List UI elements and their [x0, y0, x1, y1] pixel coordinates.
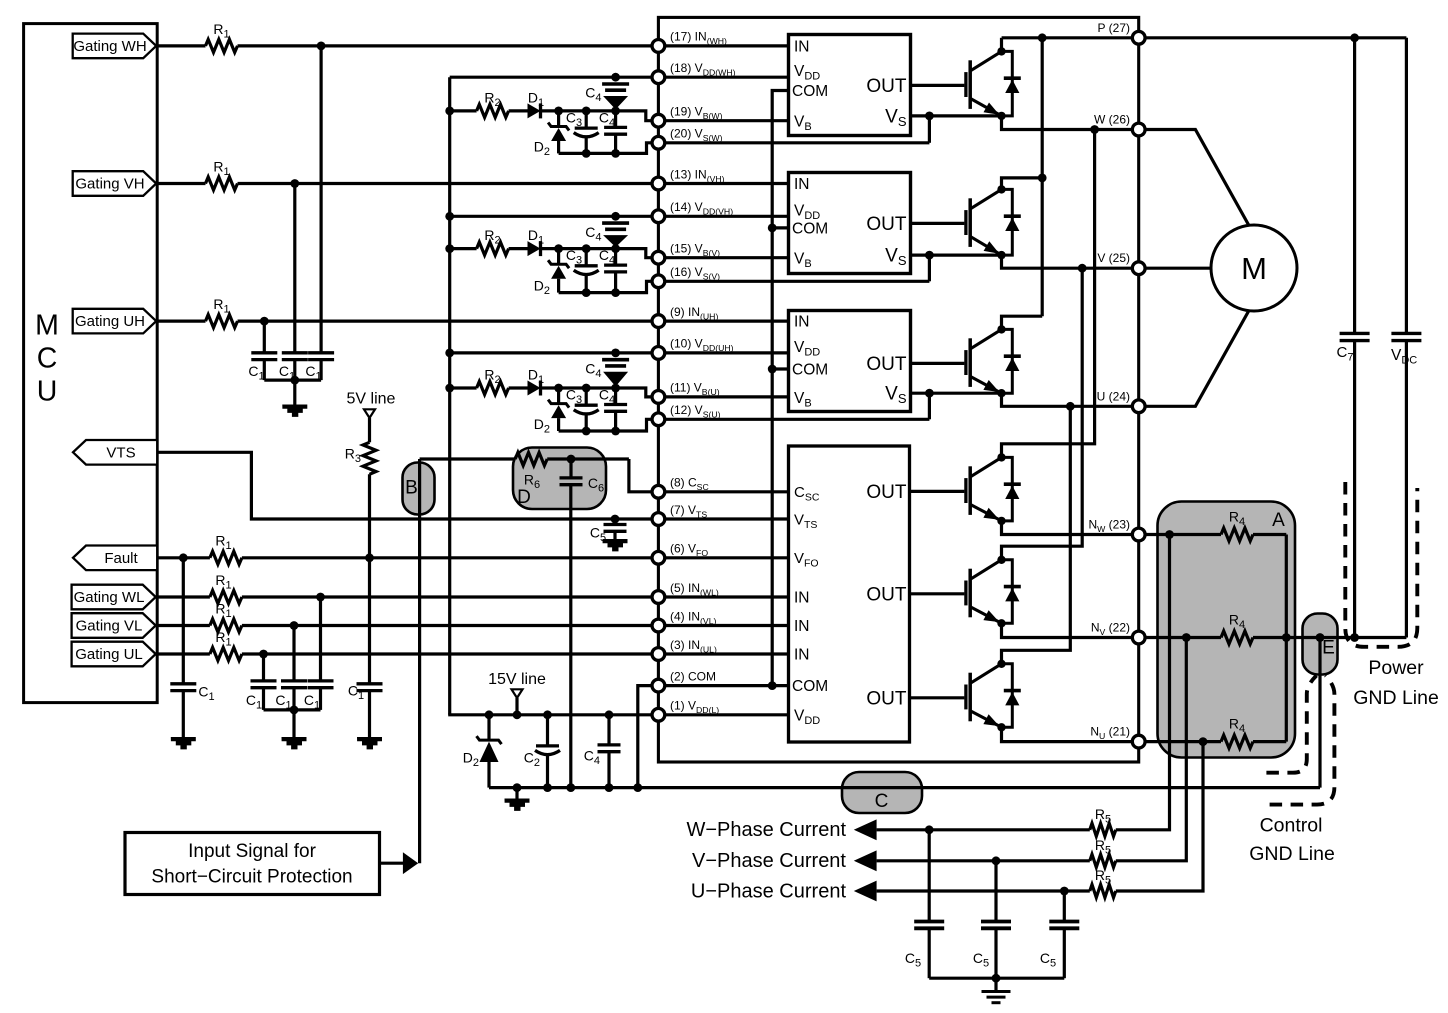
arrow into short-circuit line — [403, 852, 418, 874]
junction NV row / C7 — [1350, 633, 1359, 642]
resistor R2 (W) — [477, 104, 509, 117]
junction COM bus / COM row — [768, 681, 777, 690]
wire C5 (W) to rail — [928, 928, 931, 978]
junction 15V rail / D2 — [485, 710, 494, 719]
junction mid rail / D2 (V) — [554, 244, 563, 253]
op-amp U2 gate driver (V high) — [789, 173, 911, 274]
wire E riser (control GND to star point) — [1318, 638, 1321, 788]
wire C1 (WL) to rail — [319, 688, 322, 710]
junction VDD rail y=110.9 — [445, 107, 454, 116]
junction VDD rail y=248.6 — [445, 244, 454, 253]
junction V row / V-low feedback — [1078, 264, 1087, 273]
wire W-phase current line — [877, 828, 1090, 831]
wire W phase row — [1002, 116, 1250, 227]
wire C1 (VH) to rail — [293, 360, 296, 381]
junction COM bus / UH — [768, 365, 777, 374]
wire VS row (WH) — [911, 114, 1002, 117]
capacitor C4 (bootstrap U lower) — [614, 388, 617, 405]
wire C6 to GND rail — [569, 485, 572, 788]
svg-text:IN: IN — [794, 176, 810, 193]
wire NV row — [1002, 623, 1222, 637]
pin (18) VDD(WH) circle — [652, 71, 665, 84]
svg-text:COM: COM — [792, 678, 828, 695]
ground (C5 bank) — [982, 992, 1011, 1003]
junction mid rail / C3 (W) — [582, 107, 591, 116]
wire 15V stub — [515, 698, 518, 715]
transistor Q1 (W high-side IGBT with diode) — [911, 84, 965, 87]
junction VDD(VH) / C4 bootstrap — [611, 212, 620, 221]
wire U high collector elbow — [1002, 316, 1043, 329]
junction 15V rail / C4 — [605, 710, 614, 719]
svg-text:Gating VH: Gating VH — [75, 176, 144, 193]
wire C1 (UH) to rail — [263, 360, 266, 381]
junction 15V rail / C2 — [543, 710, 552, 719]
junction mid rail / C4 (W) — [611, 107, 620, 116]
capacitor C5 (V) — [981, 922, 1011, 929]
resistor R4 (V shunt) — [1221, 631, 1253, 644]
wire V high collector elbow — [1002, 178, 1043, 190]
junction Fault / R3 pullup — [365, 553, 374, 562]
junction GND rail / C6 branch — [566, 783, 575, 792]
capacitor C1 (R3 branch) — [357, 684, 383, 691]
pin (14) VDD(VH) circle — [652, 210, 665, 223]
wire bootstrap W bottom rail — [559, 143, 930, 154]
svg-text:OUT: OUT — [866, 214, 907, 235]
svg-text:V−Phase Current: V−Phase Current — [692, 850, 846, 872]
wire COM stub (VH driver) — [772, 226, 788, 229]
wire C1 (Fault) drop — [182, 558, 185, 684]
wire C1 drop (UH) — [263, 321, 266, 353]
pin NU (21) circle — [1132, 735, 1145, 748]
wire C5 (VTS) to ground — [613, 531, 616, 539]
junction Gating WL / C1 — [316, 593, 325, 602]
wire C5 (W) drop — [928, 830, 931, 922]
wire to ground (C1 low bank) — [292, 710, 295, 737]
capacitor C4 (bootstrap U upper) — [602, 360, 629, 366]
junction bottom rail / C4 (V) — [611, 288, 620, 297]
wire U low collector feedback — [1002, 406, 1071, 664]
wire P rail — [1002, 36, 1407, 39]
junction bottom rail / C3 (W) — [582, 149, 591, 158]
wire short-circuit signal vertical (B) — [418, 459, 421, 863]
svg-text:Gating WL: Gating WL — [74, 589, 145, 606]
capacitor C3 (V) — [585, 249, 588, 266]
transistor Q5 (V low-side IGBT with diode) — [911, 592, 965, 595]
capacitor C3 (U) — [585, 388, 588, 405]
svg-text:W (26): W (26) — [1094, 113, 1130, 127]
junction VS (UH) — [925, 389, 934, 398]
ground (C1 R3 branch) — [357, 737, 382, 749]
pin U (24) circle — [1132, 400, 1145, 413]
pin (16) VS(V) circle — [652, 275, 665, 288]
source VDC (DC supply) — [1405, 38, 1408, 334]
wire ground stub — [515, 788, 518, 799]
zener D2 (bootstrap V) — [557, 249, 560, 264]
pin NW (23) circle — [1132, 528, 1145, 541]
pin (19) VB(W) circle — [652, 114, 665, 127]
wire U-phase current line — [877, 889, 1090, 892]
junction VDD(WH) / C4 bootstrap — [611, 73, 620, 82]
zener D2 (bootstrap W) — [557, 111, 560, 126]
junction NV row / sense — [1182, 633, 1191, 642]
wire COM pin to GND rail — [638, 686, 789, 788]
wire Gating VL net — [156, 624, 210, 627]
tag Gating WH — [73, 34, 157, 59]
wire U sense drop — [1116, 742, 1203, 891]
resistor R4 (W shunt) — [1221, 528, 1253, 541]
resistor R1 (Fault) — [210, 551, 242, 564]
junction VDD rail y=216.3 — [445, 212, 454, 221]
wire bootstrap V bottom rail — [559, 281, 930, 292]
wire W high collector — [1000, 38, 1003, 52]
15V supply symbol — [512, 689, 523, 698]
svg-text:OUT: OUT — [866, 354, 907, 375]
junction 15V rail / 15V stub — [513, 710, 522, 719]
diode D1 (U) — [528, 381, 541, 396]
wire C1 drop (WH) — [320, 46, 323, 353]
wire bootstrap V mid rail — [450, 247, 477, 250]
svg-text:U: U — [37, 376, 58, 408]
ground (C1 low bank) — [282, 737, 307, 749]
svg-text:V (25): V (25) — [1097, 251, 1130, 265]
tag Fault — [73, 546, 157, 571]
svg-text:C: C — [875, 791, 889, 812]
wire R3 to Fault line — [368, 474, 371, 558]
tag Gating UL — [72, 642, 156, 667]
wire C5 (VTS) drop — [613, 519, 616, 525]
wire COM stub (UH driver) — [772, 367, 788, 370]
arrow V-phase current — [854, 850, 877, 871]
pin (2) COM circle — [652, 679, 665, 692]
wire 15V rail (VDD(L)) — [448, 713, 788, 716]
junction NV row / inner vertical — [1282, 633, 1291, 642]
svg-text:(2) COM: (2) COM — [670, 669, 716, 683]
junction GND rail / C4 — [605, 783, 614, 792]
diode D1 (V) — [528, 241, 541, 256]
junction P rail / C7 — [1350, 33, 1359, 42]
svg-text:M: M — [1241, 251, 1267, 286]
wire 5V to R3 — [368, 418, 371, 442]
capacitor C1 (Fault filter) — [170, 684, 196, 691]
junction V line / C5 — [992, 856, 1001, 865]
svg-text:U−Phase Current: U−Phase Current — [691, 880, 847, 902]
junction Gating WH / C1 — [317, 42, 326, 51]
wire VS row (UH) — [911, 392, 1002, 395]
svg-text:Gating VL: Gating VL — [76, 618, 143, 635]
svg-text:Input Signal for: Input Signal for — [188, 841, 316, 862]
box Input Signal for Short-Circuit Protection — [125, 833, 380, 895]
resistor R1 (UL) — [210, 648, 242, 661]
transistor Q4 (W low-side IGBT with diode) — [911, 490, 965, 493]
shaded region E (star ground point) — [1303, 614, 1338, 675]
transistor Q2 (V high-side IGBT with diode) — [911, 222, 965, 225]
capacitor C4 (bootstrap V lower) — [614, 249, 617, 266]
resistor R5 (V) — [1090, 854, 1116, 867]
tag Gating WL — [72, 585, 156, 610]
svg-text:M: M — [35, 310, 59, 342]
junction NV row / E ground — [1316, 633, 1325, 642]
wire C1 (R3 branch) to ground — [368, 691, 371, 737]
wire C5 common rail — [929, 977, 1064, 980]
junction Fault / C1 — [179, 553, 188, 562]
pin (6) VFO circle — [652, 551, 665, 564]
wire NU row — [1002, 727, 1222, 741]
svg-text:Gating WH: Gating WH — [73, 38, 146, 55]
wire U phase row — [1002, 310, 1250, 407]
wire 15V VDD vertical rail — [448, 77, 451, 715]
junction GND rail / C2 — [543, 783, 552, 792]
wire C1 drop (UL) — [262, 654, 265, 681]
wire input box to arrow — [380, 862, 404, 865]
resistor R1 (UH) — [206, 315, 238, 328]
junction R6 / C6 — [567, 455, 576, 464]
capacitor C6 — [569, 459, 572, 478]
junction mid rail / C4 (V) — [611, 244, 620, 253]
junction bottom rail / C3 (U) — [582, 427, 591, 436]
svg-text:IN: IN — [794, 314, 810, 331]
op-amp U3 gate driver (U high) — [789, 311, 911, 412]
junction P rail / collector bus — [1038, 33, 1047, 42]
capacitor C5 (VTS filter) — [604, 525, 627, 532]
svg-text:D: D — [517, 487, 531, 508]
wire C1 drop (VH) — [293, 184, 296, 353]
resistor R4 (U shunt) — [1221, 735, 1253, 748]
wire C1 (VL) to rail — [292, 688, 295, 710]
wire C1 drop (WL) — [319, 597, 322, 681]
svg-text:Fault: Fault — [104, 550, 138, 567]
resistor R2 (V) — [477, 242, 509, 255]
dashed outline Control GND Line (inner) — [1266, 676, 1316, 773]
capacitor C4 (bootstrap W upper) — [602, 84, 629, 90]
shaded region B (short-circuit input trace) — [403, 463, 435, 515]
wire C5 rail ground stub — [994, 978, 997, 991]
wire VDD(WH) row — [450, 76, 789, 79]
wire Fault net — [157, 556, 210, 559]
tag Gating UH — [73, 309, 157, 334]
capacitor C4 (15V) — [607, 715, 610, 745]
wire to ground (C1 top bank) — [293, 380, 296, 404]
capacitor C1 (WH input filter) — [308, 353, 334, 360]
pin (3) IN(UL) circle — [652, 648, 665, 661]
pin (12) VS(U) circle — [652, 413, 665, 426]
capacitor C4 (bootstrap V upper) — [602, 223, 629, 229]
wire C5 (V) to rail — [994, 928, 997, 978]
junction mid rail / D2 (W) — [554, 107, 563, 116]
wire VS row (VH) — [911, 254, 1002, 257]
wire Gating WL net — [156, 595, 210, 598]
wire VDD(UH) row — [450, 351, 789, 354]
wire VTS net — [157, 452, 788, 519]
pin V (25) circle — [1132, 262, 1145, 275]
svg-text:OUT: OUT — [866, 482, 907, 503]
junction Gating VL / C1 — [290, 621, 299, 630]
zener D2 (bootstrap U) — [557, 388, 560, 403]
svg-text:IN: IN — [794, 647, 810, 664]
junction VS (WH) — [925, 112, 934, 121]
pin W (26) circle — [1132, 123, 1145, 136]
capacitor C7 (DC bus) — [1353, 38, 1356, 334]
svg-text:GND Line: GND Line — [1353, 687, 1439, 709]
ground (C5 VTS) — [603, 539, 628, 551]
junction U row / U-low feedback — [1066, 402, 1075, 411]
svg-text:Power: Power — [1368, 657, 1424, 679]
ground (C1 top bank) — [282, 405, 307, 417]
wire W sense drop — [1116, 535, 1170, 830]
capacitor C1 (VL input filter) — [281, 681, 307, 688]
wire C5 (U) drop — [1063, 891, 1066, 922]
junction NW row / sense — [1165, 530, 1174, 539]
resistor R5 (U) — [1090, 885, 1116, 898]
junction mid rail / C3 (V) — [582, 244, 591, 253]
resistor R1 (WL) — [210, 591, 242, 604]
svg-text:15V line: 15V line — [488, 671, 546, 688]
pin (7) VTS circle — [652, 513, 665, 526]
svg-text:W−Phase Current: W−Phase Current — [686, 819, 846, 841]
transistor Q6 (U low-side IGBT with diode) — [911, 696, 965, 699]
resistor R1 (WH) — [206, 39, 238, 52]
junction bottom rail / C3 (V) — [582, 288, 591, 297]
wire bootstrap U mid rail — [450, 386, 477, 389]
capacitor C1 (UL input filter) — [251, 681, 277, 688]
junction mid rail / C3 (U) — [582, 384, 591, 393]
svg-text:Gating UH: Gating UH — [75, 313, 145, 330]
svg-text:Short−Circuit Protection: Short−Circuit Protection — [151, 867, 352, 888]
wire C1 bank top common rail — [264, 379, 321, 382]
junction collector bus / V collector — [1038, 174, 1047, 183]
resistor R2 (U) — [477, 382, 509, 395]
diode D1 (W) — [528, 103, 541, 118]
junction NU row / sense — [1199, 737, 1208, 746]
wire control GND rail — [489, 786, 1320, 789]
junction Gating UH / C1 — [260, 317, 269, 326]
junction Gating VH / C1 — [290, 179, 299, 188]
wire C1 (WH) to rail — [320, 360, 323, 381]
ground (C1 Fault) — [171, 737, 196, 749]
svg-text:COM: COM — [792, 220, 828, 237]
junction bottom rail / C4 (U) — [611, 427, 620, 436]
wire V sense drop — [1116, 638, 1187, 861]
wire C1 drop (VL) — [292, 626, 295, 681]
capacitor C1 (VH input filter) — [282, 353, 308, 360]
arrow U-phase current — [854, 881, 877, 902]
wire bootstrap W mid rail — [450, 109, 477, 112]
wire Fault line to C1 (R3 branch) — [368, 558, 371, 684]
svg-text:C: C — [37, 343, 58, 375]
wire C1 (Fault) to ground — [182, 691, 185, 737]
junction U line / C5 — [1060, 887, 1069, 896]
arrow W-phase current — [854, 819, 877, 840]
junction VTS / C5 — [611, 515, 620, 524]
svg-text:COM: COM — [792, 362, 828, 379]
wire V low collector feedback — [1002, 268, 1083, 560]
wire Gating VH net — [156, 182, 205, 185]
op-amp U1 gate driver (W high) — [789, 35, 911, 136]
svg-text:IN: IN — [794, 618, 810, 635]
wire bootstrap U bottom rail — [559, 419, 930, 431]
svg-text:P (27): P (27) — [1098, 21, 1130, 35]
op-amp U4 low-side driver block — [789, 446, 910, 742]
junction VS (VH) — [925, 251, 934, 260]
resistor R6 — [515, 453, 547, 466]
svg-text:IN: IN — [794, 38, 810, 55]
MCU block — [24, 24, 158, 703]
pin NV (22) circle — [1132, 631, 1145, 644]
junction C5 rail / ground — [992, 974, 1001, 983]
svg-text:B: B — [405, 478, 418, 499]
resistor R5 (W) — [1090, 823, 1116, 836]
pin (17) IN(WH) circle — [652, 40, 665, 53]
svg-text:IN: IN — [794, 590, 810, 607]
svg-text:E: E — [1322, 638, 1335, 659]
capacitor C5 (U) — [1049, 922, 1079, 929]
capacitor C1 (UH input filter) — [251, 353, 277, 360]
wire C5 (U) to rail — [1063, 928, 1066, 978]
wire C1 bank low common rail — [264, 708, 321, 711]
5V supply symbol — [364, 409, 375, 418]
pin (1) VDD(L) circle — [652, 708, 665, 721]
svg-text:Control: Control — [1260, 815, 1323, 837]
svg-text:5V line: 5V line — [347, 391, 396, 408]
svg-text:U (24): U (24) — [1097, 389, 1130, 403]
pin (5) IN(WL) circle — [652, 591, 665, 604]
wire V phase row — [1002, 255, 1212, 268]
resistor R1 (VL) — [210, 619, 242, 632]
tag Gating VH — [73, 171, 157, 196]
junction W row / W-low feedback — [1090, 125, 1099, 134]
tag Gating VL — [72, 613, 156, 638]
wire NW row — [1002, 521, 1222, 535]
junction W line / C5 — [925, 825, 934, 834]
dashed outline Power GND Line — [1345, 482, 1417, 647]
resistor R3 — [363, 442, 376, 474]
wire V-phase current line — [877, 859, 1090, 862]
junction mid rail / D2 (U) — [554, 384, 563, 393]
pin (11) VB(U) circle — [652, 391, 665, 404]
tag VTS — [73, 440, 157, 465]
svg-text:COM: COM — [792, 83, 828, 100]
wire collector bus vertical — [1041, 38, 1044, 316]
svg-text:A: A — [1272, 510, 1285, 531]
svg-text:VTS: VTS — [106, 444, 135, 461]
capacitor C5 (W) — [914, 922, 944, 929]
svg-text:OUT: OUT — [866, 688, 907, 709]
shaded region C (control ground trace) — [842, 772, 922, 813]
svg-text:OUT: OUT — [866, 584, 907, 605]
wire VDD(VH) row — [450, 215, 789, 218]
wire W low collector feedback — [1002, 130, 1095, 458]
pin (13) IN(VH) circle — [652, 177, 665, 190]
shaded region A (shunt resistor area) — [1158, 502, 1296, 758]
junction C1 bank top / ground — [290, 376, 299, 385]
transistor Q3 (U high-side IGBT with diode) — [911, 362, 965, 365]
junction VDD rail y=388 — [445, 384, 454, 393]
ground (control GND) — [505, 799, 530, 811]
junction bottom rail / C4 (W) — [611, 149, 620, 158]
motor M — [1211, 225, 1297, 311]
junction VDD(UH) / C4 bootstrap — [611, 349, 620, 358]
wire COM bus vertical — [772, 91, 788, 686]
junction mid rail / C4 (U) — [611, 384, 620, 393]
zener D2 (15V clamp) — [487, 715, 490, 740]
wire C1 (UL) to rail — [262, 688, 265, 710]
capacitor C1 (WL input filter) — [308, 681, 334, 688]
capacitor C3 (W) — [585, 111, 588, 128]
wire Gating UH net — [156, 320, 205, 323]
junction COM bus / VH — [768, 224, 777, 233]
wire CSC branch — [420, 457, 516, 460]
pin (10) VDD(UH) circle — [652, 347, 665, 360]
pin P (27) circle — [1132, 31, 1145, 44]
